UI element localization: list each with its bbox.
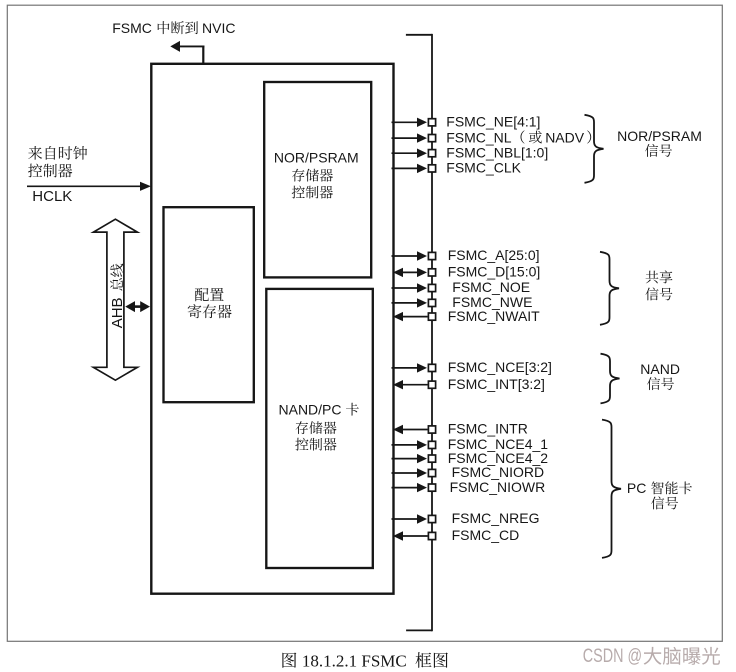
wire HCLK into FSMC box: [27, 182, 151, 191]
brace shared signals: [600, 252, 619, 325]
svg-text:FSMC_CLK: FSMC_CLK: [446, 160, 521, 176]
box 配置寄存器 (configuration registers): [164, 207, 254, 402]
svg-text:AHB: AHB: [109, 297, 126, 328]
svg-text:18.1.2.1 FSMC: 18.1.2.1 FSMC: [302, 652, 407, 671]
label FSMC 中断到 NVIC: [112, 20, 235, 36]
label 配置 寄存器: [188, 288, 232, 318]
svg-text:NAND: NAND: [640, 361, 680, 377]
svg-text:NOR/PSRAM: NOR/PSRAM: [617, 128, 702, 144]
signal FSMC_INT[3:2]: [393, 376, 545, 392]
svg-text:NOR/PSRAM: NOR/PSRAM: [274, 149, 359, 165]
signal FSMC_NIORD: [392, 464, 545, 480]
signal FSMC_INTR: [393, 421, 528, 437]
watermark CSDN @大脑曝光: [583, 645, 720, 667]
svg-text:FSMC_NBL[1:0]: FSMC_NBL[1:0]: [446, 144, 548, 160]
svg-text:FSMC_NIOWR: FSMC_NIOWR: [450, 479, 546, 495]
svg-text:FSMC_INTR: FSMC_INTR: [448, 421, 528, 437]
svg-text:NAND/PC: NAND/PC: [279, 402, 342, 418]
svg-text:FSMC_INT[3:2]: FSMC_INT[3:2]: [448, 376, 545, 392]
signal FSMC_NL: [392, 129, 592, 145]
svg-text:FSMC_NE[4:1]: FSMC_NE[4:1]: [446, 114, 540, 130]
label PC 智能卡 信号: [627, 480, 692, 509]
svg-text:FSMC_NREG: FSMC_NREG: [452, 510, 540, 526]
svg-text:NADV: NADV: [545, 129, 585, 145]
brace NAND signals: [601, 354, 620, 404]
signal FSMC_NWE: [392, 294, 533, 310]
svg-text:FSMC_NOE: FSMC_NOE: [452, 279, 530, 295]
svg-text:NVIC: NVIC: [202, 20, 235, 36]
wire interrupt to NVIC: [170, 41, 204, 65]
box NAND/PC card controller: [266, 289, 373, 568]
wire AHB to FSMC box (double arrow): [125, 301, 150, 312]
label 共享 信号: [645, 270, 672, 300]
label AHB 总线 (rotated): [109, 264, 126, 329]
signal FSMC_NCE4_1: [392, 436, 549, 452]
svg-text:PC: PC: [627, 480, 646, 496]
signal FSMC_NWAIT: [393, 308, 540, 324]
svg-text:FSMC_D[15:0]: FSMC_D[15:0]: [448, 264, 541, 280]
signal FSMC_D[15:0]: [393, 264, 540, 280]
label NAND/PC 卡 存储器 控制器: [279, 402, 359, 451]
signal FSMC_NCE[3:2]: [392, 359, 552, 375]
brace NOR/PSRAM signals: [585, 115, 604, 183]
svg-text:HCLK: HCLK: [32, 188, 72, 205]
caption 图 18.1.2.1 FSMC 框图: [282, 652, 447, 671]
signal FSMC_CLK: [392, 160, 522, 176]
svg-text:FSMC_NCE[3:2]: FSMC_NCE[3:2]: [448, 359, 552, 375]
signal FSMC_NE[4:1]: [392, 114, 541, 130]
external signal bus line: [406, 34, 432, 631]
label NOR/PSRAM 信号: [617, 128, 702, 157]
svg-text:FSMC_NIORD: FSMC_NIORD: [452, 464, 545, 480]
signal FSMC_NBL[1:0]: [392, 144, 549, 160]
svg-text:FSMC_NL: FSMC_NL: [446, 129, 512, 145]
label 来自时钟 控制器 (from clock controller): [28, 146, 87, 178]
signal FSMC_NIOWR: [392, 479, 546, 495]
svg-text:FSMC_CD: FSMC_CD: [452, 527, 520, 543]
AHB bus double arrow: [93, 219, 137, 380]
label NOR/PSRAM 存储器 控制器: [274, 149, 359, 198]
svg-text:FSMC: FSMC: [112, 20, 152, 36]
brace PC card signals: [602, 420, 621, 558]
signal FSMC_NCE4_2: [392, 450, 549, 466]
signal FSMC_NREG: [392, 510, 540, 526]
signal FSMC_A[25:0]: [392, 247, 540, 263]
box NOR/PSRAM controller: [264, 82, 371, 277]
signal FSMC_NOE: [392, 279, 531, 295]
signal FSMC_CD: [393, 527, 519, 543]
svg-text:FSMC_NWAIT: FSMC_NWAIT: [448, 308, 540, 324]
svg-text:CSDN @: CSDN @: [583, 645, 642, 667]
box FSMC controller outline: [151, 64, 393, 594]
svg-text:FSMC_A[25:0]: FSMC_A[25:0]: [448, 247, 540, 263]
label NAND 信号: [640, 361, 680, 390]
